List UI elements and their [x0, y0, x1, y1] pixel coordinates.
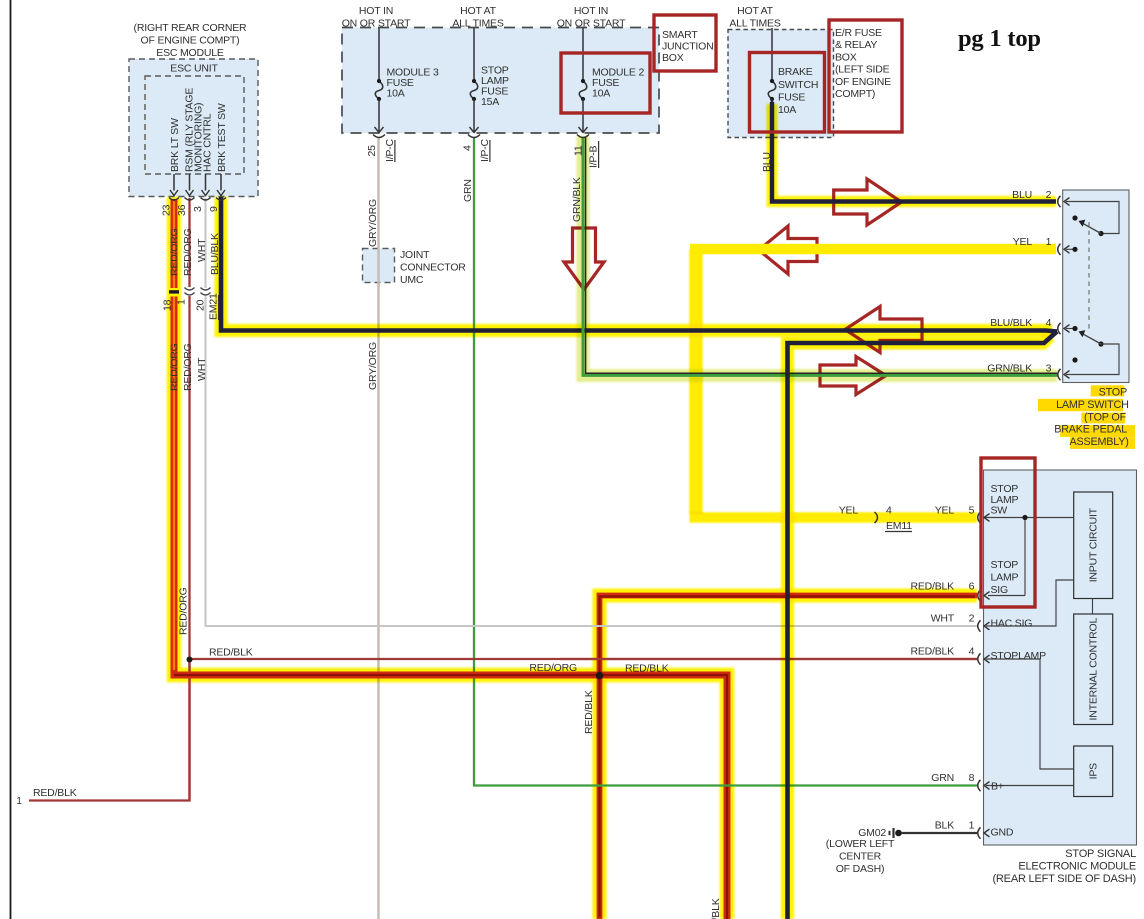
svg-text:BOX: BOX	[662, 52, 684, 64]
svg-text:GRY/ORG: GRY/ORG	[367, 342, 379, 390]
svg-text:BLU: BLU	[761, 152, 773, 172]
svg-text:GRN: GRN	[931, 772, 954, 784]
svg-text:INPUT CIRCUIT: INPUT CIRCUIT	[1088, 507, 1100, 582]
svg-text:RED/ORG: RED/ORG	[169, 343, 181, 391]
svg-text:RED/BLK: RED/BLK	[710, 898, 722, 919]
svg-text:4: 4	[969, 646, 975, 658]
svg-text:1: 1	[176, 299, 188, 305]
svg-text:I/P-C: I/P-C	[384, 138, 396, 162]
svg-text:WHT: WHT	[196, 238, 208, 262]
svg-text:& RELAY: & RELAY	[835, 39, 877, 51]
svg-text:OF DASH): OF DASH)	[836, 863, 885, 875]
svg-text:ESC MODULE: ESC MODULE	[156, 47, 224, 59]
svg-text:UMC: UMC	[400, 274, 424, 286]
svg-text:2: 2	[969, 613, 975, 625]
svg-text:OF ENGINE COMPT): OF ENGINE COMPT)	[141, 35, 240, 47]
svg-text:I/P-C: I/P-C	[479, 138, 491, 162]
svg-text:WHT: WHT	[196, 357, 208, 381]
svg-text:3: 3	[1046, 363, 1052, 375]
svg-text:I/P-B: I/P-B	[588, 145, 600, 168]
svg-text:GRN: GRN	[462, 179, 474, 202]
svg-text:JOINT: JOINT	[400, 249, 430, 261]
svg-text:GRY/ORG: GRY/ORG	[367, 199, 379, 247]
svg-text:JUNCTION: JUNCTION	[662, 41, 713, 53]
svg-text:RED/ORG: RED/ORG	[169, 228, 181, 276]
svg-text:FUSE: FUSE	[778, 92, 805, 104]
svg-text:36: 36	[176, 204, 188, 216]
svg-text:BRK TEST SW: BRK TEST SW	[216, 103, 228, 172]
svg-text:STOP: STOP	[991, 559, 1019, 571]
svg-text:INTERNAL CONTROL: INTERNAL CONTROL	[1088, 618, 1100, 721]
svg-text:11: 11	[573, 145, 585, 156]
svg-text:STOP: STOP	[1099, 387, 1127, 399]
svg-text:23: 23	[161, 204, 173, 216]
svg-text:BRAKE PEDAL: BRAKE PEDAL	[1054, 424, 1127, 436]
svg-text:RED/ORG: RED/ORG	[182, 228, 194, 276]
svg-text:HOT AT: HOT AT	[737, 5, 774, 17]
svg-text:YEL: YEL	[839, 505, 859, 517]
svg-text:(REAR LEFT SIDE OF DASH): (REAR LEFT SIDE OF DASH)	[992, 873, 1136, 885]
svg-text:SMART: SMART	[662, 29, 698, 41]
svg-text:SW: SW	[991, 505, 1008, 517]
svg-text:ESC UNIT: ESC UNIT	[170, 63, 218, 75]
svg-text:HAC SIG: HAC SIG	[991, 618, 1033, 630]
svg-text:5: 5	[969, 505, 975, 517]
svg-text:LAMP: LAMP	[991, 572, 1019, 584]
svg-text:RED/BLK: RED/BLK	[209, 647, 253, 659]
svg-text:HOT IN: HOT IN	[359, 5, 393, 17]
svg-text:E/R FUSE: E/R FUSE	[835, 27, 882, 39]
svg-text:EM21: EM21	[208, 293, 220, 320]
svg-text:ON OR START: ON OR START	[557, 18, 626, 30]
svg-text:BLU/BLK: BLU/BLK	[209, 233, 221, 275]
svg-text:SWITCH: SWITCH	[778, 79, 818, 91]
svg-text:(LEFT SIDE: (LEFT SIDE	[835, 64, 890, 76]
svg-text:2: 2	[1046, 189, 1052, 201]
svg-text:6: 6	[969, 581, 975, 593]
svg-text:RED/ORG: RED/ORG	[178, 587, 190, 635]
svg-text:1: 1	[1046, 236, 1052, 248]
svg-text:CENTER: CENTER	[839, 851, 882, 863]
svg-text:RED/BLK: RED/BLK	[583, 690, 595, 734]
svg-text:SIG: SIG	[991, 584, 1009, 596]
svg-text:1: 1	[969, 820, 975, 832]
svg-text:10A: 10A	[592, 88, 610, 100]
svg-text:RED/BLK: RED/BLK	[33, 787, 77, 799]
svg-text:OF ENGINE: OF ENGINE	[835, 76, 891, 88]
svg-text:4: 4	[886, 505, 892, 517]
svg-text:ON OR START: ON OR START	[342, 18, 411, 30]
svg-text:8: 8	[969, 772, 975, 784]
svg-text:4: 4	[1046, 317, 1052, 329]
svg-text:RED/BLK: RED/BLK	[910, 581, 954, 593]
svg-text:(TOP OF: (TOP OF	[1084, 411, 1127, 423]
svg-text:HOT AT: HOT AT	[460, 5, 497, 17]
svg-text:STOPLAMP: STOPLAMP	[991, 650, 1047, 662]
svg-text:BLK: BLK	[935, 820, 954, 832]
svg-text:25: 25	[366, 145, 378, 157]
svg-text:9: 9	[208, 206, 220, 212]
svg-text:EM11: EM11	[886, 520, 912, 532]
svg-text:ALL TIMES: ALL TIMES	[729, 18, 781, 30]
svg-text:(LOWER LEFT: (LOWER LEFT	[826, 838, 895, 850]
svg-text:RED/BLK: RED/BLK	[910, 646, 954, 658]
svg-text:BLU/BLK: BLU/BLK	[990, 317, 1032, 329]
svg-text:3: 3	[192, 206, 204, 212]
svg-text:BRAKE: BRAKE	[778, 66, 813, 78]
svg-text:ELECTRONIC MODULE: ELECTRONIC MODULE	[1018, 861, 1136, 873]
svg-text:RED/ORG: RED/ORG	[182, 343, 194, 391]
svg-text:1: 1	[16, 796, 22, 807]
svg-text:BRK LT SW: BRK LT SW	[169, 118, 181, 172]
svg-text:GRN/BLK: GRN/BLK	[571, 177, 583, 222]
svg-text:BOX: BOX	[835, 51, 857, 63]
svg-text:CONNECTOR: CONNECTOR	[400, 262, 466, 274]
svg-text:20: 20	[195, 299, 207, 311]
svg-text:4: 4	[462, 145, 474, 151]
svg-text:10A: 10A	[778, 104, 796, 116]
svg-text:RED/BLK: RED/BLK	[625, 663, 669, 675]
svg-text:ALL TIMES: ALL TIMES	[452, 18, 504, 30]
svg-text:COMPT): COMPT)	[835, 88, 875, 100]
svg-text:18: 18	[162, 299, 174, 311]
svg-text:GND: GND	[991, 827, 1014, 839]
svg-text:WHT: WHT	[931, 613, 955, 625]
svg-text:ASSEMBLY): ASSEMBLY)	[1069, 436, 1128, 448]
svg-text:GRN/BLK: GRN/BLK	[987, 363, 1032, 375]
svg-text:IPS: IPS	[1088, 763, 1100, 780]
svg-text:YEL: YEL	[1013, 236, 1033, 248]
svg-text:RED/ORG: RED/ORG	[529, 662, 577, 674]
svg-text:(RIGHT REAR CORNER: (RIGHT REAR CORNER	[134, 22, 247, 34]
svg-text:10A: 10A	[387, 88, 405, 100]
svg-text:STOP SIGNAL: STOP SIGNAL	[1065, 848, 1136, 860]
svg-text:HOT IN: HOT IN	[574, 5, 608, 17]
svg-text:BLU: BLU	[1012, 189, 1032, 201]
svg-text:YEL: YEL	[935, 505, 955, 517]
svg-text:pg 1 top: pg 1 top	[958, 25, 1041, 52]
svg-text:HAC CNTRL: HAC CNTRL	[202, 113, 214, 172]
svg-text:B+: B+	[991, 781, 1004, 793]
svg-text:15A: 15A	[481, 96, 499, 108]
svg-text:LAMP SWITCH: LAMP SWITCH	[1056, 399, 1129, 411]
